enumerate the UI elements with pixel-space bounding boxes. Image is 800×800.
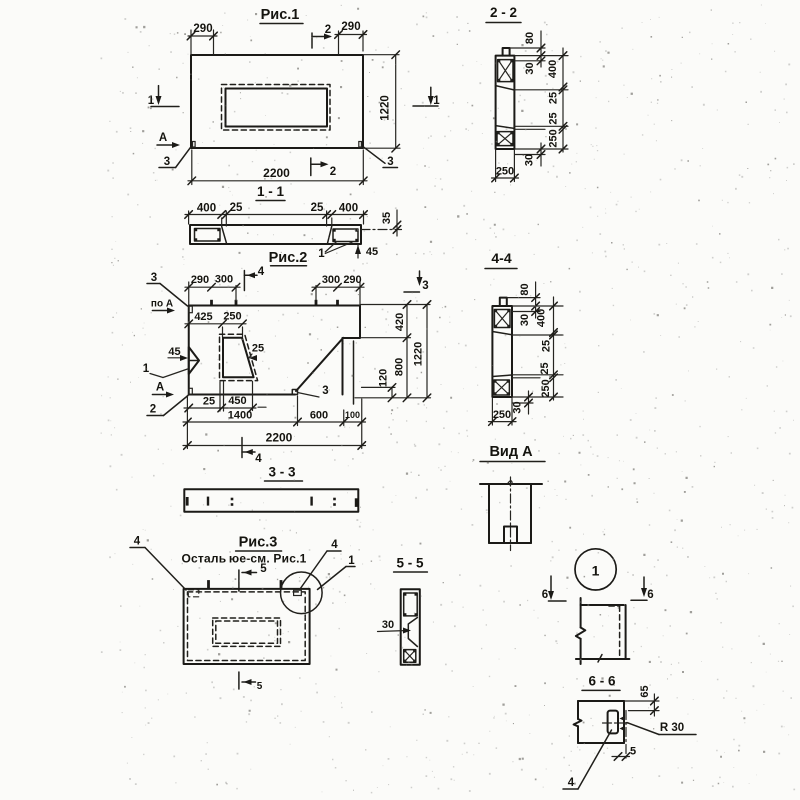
svg-text:65: 65	[639, 685, 651, 697]
section 3-3 left anchor mark	[186, 497, 189, 506]
svg-text:400: 400	[547, 60, 559, 78]
svg-text:4: 4	[258, 266, 265, 278]
fig1 section flag 2 bottom	[310, 158, 312, 176]
svg-text:300: 300	[322, 274, 340, 286]
svg-text:2: 2	[325, 24, 331, 36]
section 3-3 bar mark right	[310, 497, 312, 506]
section 6-6 fillet marks R30	[620, 716, 625, 721]
fig3 section flag 5 top	[238, 570, 240, 591]
fig1 panel outline 2200x1220	[191, 55, 363, 148]
svg-text:300: 300	[215, 274, 233, 286]
svg-text:290: 290	[193, 23, 212, 35]
svg-text:4: 4	[568, 777, 575, 789]
section 6-6 rod cross-section	[608, 711, 618, 734]
svg-text:2 - 2: 2 - 2	[490, 5, 517, 20]
detail corner bottom break mark	[598, 655, 602, 663]
svg-text:250: 250	[223, 311, 241, 323]
section 4-4 top rebar cage	[494, 310, 510, 328]
section 1-1 left weld diagonal	[222, 227, 227, 244]
svg-text:250: 250	[496, 166, 514, 178]
svg-text:400: 400	[339, 203, 358, 215]
svg-text:290: 290	[343, 274, 361, 286]
section 2-2 dim 30 bottom	[515, 148, 568, 150]
section 6-6 label R30	[627, 723, 659, 735]
fig2 keyway triangle on left edge	[189, 347, 199, 374]
section 4-4 dims 400 25 25 250 outer chain	[512, 334, 563, 336]
view A centerline	[510, 477, 512, 551]
fig3 panel outline	[184, 589, 310, 664]
fig1 section flag 2 top	[311, 33, 313, 48]
svg-text:1: 1	[433, 95, 440, 107]
section 4-4 upper diagonal	[492, 332, 512, 335]
fig2 dim 2200 bottom	[183, 445, 366, 447]
section 2-2 bottom rebar cage	[497, 132, 513, 146]
section 4-4 lifting loop top	[500, 298, 507, 306]
section 1-1 dim 45	[357, 245, 359, 259]
section 1-1 right weld diagonal	[328, 226, 332, 243]
svg-text:3: 3	[164, 156, 170, 168]
section 3-3 body strip	[184, 489, 358, 511]
fig2 section flag 4 top	[243, 271, 245, 291]
svg-text:1220: 1220	[380, 95, 392, 121]
fig2 leader 3 to plate	[298, 393, 320, 398]
fig3 hidden contour dashed border	[188, 592, 306, 661]
fig3 window hidden dashed outer	[213, 618, 281, 646]
detail corner fragment outline	[580, 598, 582, 628]
fig2 right dim chain 420 1220 800 120	[361, 304, 430, 306]
svg-text:30: 30	[524, 154, 536, 166]
svg-text:4: 4	[255, 453, 262, 465]
svg-text:45: 45	[168, 346, 180, 358]
fig3 anchor loops top	[207, 580, 210, 589]
svg-text:400: 400	[197, 203, 216, 215]
svg-text:25: 25	[541, 340, 553, 352]
svg-text:250: 250	[493, 409, 511, 421]
svg-text:3: 3	[387, 156, 393, 168]
svg-text:А: А	[159, 132, 167, 144]
svg-text:1400: 1400	[228, 410, 252, 422]
svg-text:2200: 2200	[266, 431, 293, 445]
svg-text:25: 25	[252, 343, 264, 355]
svg-text:25: 25	[548, 92, 560, 104]
svg-text:1: 1	[348, 555, 355, 567]
svg-text:1220: 1220	[413, 342, 425, 366]
fig2 door window trapezoid inner edge	[223, 338, 254, 378]
fig1 dim 2200 bottom	[191, 150, 193, 185]
fig2 dim 25 450 below	[219, 382, 221, 412]
fig1 dim 290 top-left	[190, 30, 192, 54]
svg-text:6: 6	[542, 589, 548, 601]
svg-text:5: 5	[630, 746, 636, 758]
section 6-6 dim 5	[612, 756, 630, 758]
fig1 leader 3 bottom-right	[363, 147, 385, 164]
svg-text:30: 30	[519, 314, 531, 326]
fig2 top dim 290 300 ... 300 290	[235, 286, 237, 301]
svg-text:1: 1	[318, 248, 325, 260]
svg-text:Рис.2: Рис.2	[269, 250, 308, 266]
fig1 corner plate mark bottom-right	[359, 142, 362, 148]
section 1-1 axis line and dim 35	[361, 229, 402, 231]
fig2 embedded plate at diagonal foot	[292, 390, 297, 395]
section 6-6 fragment outline with break	[578, 700, 624, 702]
detail callout circle 1	[575, 549, 616, 590]
svg-text:3: 3	[322, 385, 328, 397]
svg-text:Вид А: Вид А	[489, 444, 533, 460]
fig1 section marker 1 right	[413, 105, 438, 107]
svg-text:800: 800	[394, 358, 406, 376]
svg-text:2: 2	[330, 166, 336, 178]
fig2 jamb inner line	[353, 341, 355, 404]
svg-text:Рис.1: Рис.1	[261, 7, 300, 23]
section 2-2 upper diagonal	[496, 86, 515, 90]
svg-text:Осталь юе-см. Рис.1: Осталь юе-см. Рис.1	[182, 552, 307, 566]
section 2-2 dims 80 30 inner chain	[510, 47, 545, 49]
svg-text:4: 4	[331, 539, 338, 551]
svg-text:по А: по А	[151, 299, 173, 310]
fig1 window opening inner edge	[226, 89, 328, 127]
fig3 detail callout circle	[281, 572, 323, 614]
svg-text:1 - 1: 1 - 1	[257, 184, 285, 199]
svg-text:420: 420	[394, 313, 406, 331]
section 1-1 right rebar cage	[333, 229, 358, 242]
section 3-3 bar mark left	[207, 497, 209, 506]
svg-text:600: 600	[310, 410, 328, 422]
section 1-1 body	[190, 225, 361, 244]
svg-text:4-4: 4-4	[491, 250, 511, 266]
svg-text:А: А	[156, 382, 164, 394]
fig2 diagonal crack line to corner	[296, 338, 343, 391]
svg-text:R 30: R 30	[660, 722, 684, 734]
svg-text:450: 450	[228, 395, 246, 407]
section 6-6 dim 65	[625, 700, 659, 702]
svg-text:4: 4	[134, 536, 141, 548]
detail corner dashed inner line	[619, 606, 621, 658]
fig1 window opening dashed contour	[222, 85, 331, 131]
svg-text:25: 25	[548, 112, 560, 124]
section 4-4 lower diagonal	[492, 375, 512, 377]
svg-text:250: 250	[540, 379, 552, 397]
svg-text:2200: 2200	[263, 166, 290, 180]
svg-text:30: 30	[512, 401, 524, 413]
svg-text:290: 290	[191, 274, 209, 286]
fig2 section flag 4 bottom	[241, 438, 243, 458]
svg-text:25: 25	[230, 202, 243, 214]
fig3 window hidden dashed inner	[216, 621, 278, 643]
svg-text:120: 120	[378, 369, 390, 387]
section 1-1 left rebar cage	[195, 229, 221, 242]
svg-text:250: 250	[548, 129, 560, 147]
section 4-4 bottom rebar cage	[494, 380, 510, 395]
svg-text:6 - 6: 6 - 6	[588, 674, 616, 689]
section 3-3 right anchor mark	[355, 498, 358, 507]
svg-text:80: 80	[524, 32, 536, 44]
fig2 panel outline with corner cutout	[189, 306, 360, 395]
section 4-4 dims 80 30 inner chain	[507, 297, 540, 299]
svg-text:25: 25	[311, 202, 324, 214]
section 2-2 top rebar cage	[498, 60, 513, 82]
section 4-4 dim 30 bottom	[512, 396, 563, 398]
svg-text:Рис.3: Рис.3	[239, 535, 278, 551]
fig1 corner plate mark bottom-left	[193, 142, 196, 148]
svg-text:5: 5	[257, 681, 263, 692]
section 4-4 dim 250 width	[491, 399, 493, 426]
svg-text:3: 3	[422, 280, 428, 292]
section 2-2 dim 250 width	[495, 150, 497, 182]
fig3 section flag 5 bottom	[238, 672, 240, 689]
view A keyway notch	[504, 527, 517, 544]
section 5-5 channel recess line	[408, 618, 417, 647]
svg-text:35: 35	[381, 212, 393, 224]
fig1 dim 1220 right side	[364, 54, 399, 56]
svg-text:30: 30	[524, 62, 536, 74]
section 5-5 bottom rebar cage	[404, 650, 416, 663]
section 2-2 body	[496, 56, 515, 149]
svg-text:3: 3	[151, 272, 157, 284]
section 2-2 lifting loop top	[503, 48, 510, 56]
section 4-4 body	[492, 306, 512, 397]
svg-text:25: 25	[539, 362, 551, 374]
fig2 door window trapezoid dashed contour	[220, 334, 258, 380]
fig2 top-left corner plate mark	[189, 306, 192, 313]
svg-text:5 - 5: 5 - 5	[396, 556, 424, 571]
section 2-2 lower diagonal	[496, 126, 515, 129]
svg-text:6: 6	[647, 589, 653, 601]
fig2 dim 425 250	[222, 327, 224, 337]
svg-text:30: 30	[382, 619, 394, 631]
section 1-1 dim chain 400 25 / 25 400	[188, 211, 190, 224]
view A body	[480, 483, 542, 485]
svg-text:3 - 3: 3 - 3	[268, 465, 296, 480]
svg-text:290: 290	[341, 21, 360, 33]
fig1 dim 290 top-right	[338, 31, 340, 54]
section 5-5 body	[401, 589, 420, 665]
fig2 anchor loops on top edge	[210, 300, 213, 306]
svg-text:1: 1	[143, 363, 150, 375]
section 5-5 top rebar cage	[404, 593, 418, 616]
svg-text:45: 45	[366, 246, 378, 258]
svg-text:80: 80	[519, 283, 531, 295]
svg-text:25: 25	[203, 396, 215, 408]
section 2-2 dims 400 25 25 250 outer chain	[515, 89, 568, 91]
fig2 dim 1400 600 100	[186, 396, 188, 449]
svg-text:2: 2	[150, 404, 156, 416]
svg-text:400: 400	[536, 309, 548, 327]
fig3 corner plate top-left	[188, 590, 199, 597]
fig3 corner plate top-right	[294, 590, 302, 595]
section 6-6 axis line vertical	[625, 711, 627, 759]
view A centerline top mark	[508, 481, 512, 485]
svg-text:425: 425	[194, 311, 212, 323]
fig2 bottom-left corner plate mark	[189, 388, 192, 394]
svg-text:100: 100	[345, 410, 360, 420]
section 3-3 dots right	[333, 498, 336, 501]
section 6-6 axis line horizontal	[603, 722, 630, 724]
section 3-3 dots left	[231, 498, 234, 501]
svg-text:5: 5	[260, 563, 267, 575]
svg-text:1: 1	[592, 563, 600, 579]
